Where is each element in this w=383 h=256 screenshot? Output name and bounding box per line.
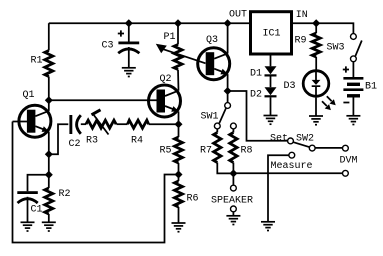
svg-text:D3: D3 xyxy=(284,81,296,92)
wire D2 to ground xyxy=(270,97,272,115)
resistor R4 xyxy=(128,120,149,128)
wire speaker bottom to ground xyxy=(232,212,234,216)
node P1 dot on rail xyxy=(174,19,182,27)
wire feedback loop (Q1 base to R5/R6 node) xyxy=(13,122,179,243)
transistor Q3 xyxy=(198,48,230,80)
svg-text:B1: B1 xyxy=(365,82,377,93)
wire SW2 throw to DVM top xyxy=(315,147,342,149)
svg-text:Q3: Q3 xyxy=(206,35,218,46)
transistor Q1 xyxy=(19,105,51,137)
wire R5 bottom to node E xyxy=(178,163,180,181)
wire R8 bottom to node G xyxy=(232,163,234,174)
svg-text:SW1: SW1 xyxy=(201,112,219,123)
wire C1 branch xyxy=(28,175,49,192)
svg-text:SW3: SW3 xyxy=(327,43,345,54)
wire C2 branch xyxy=(49,124,69,154)
ground under Measure wire xyxy=(261,222,275,231)
svg-text:DVM: DVM xyxy=(340,156,358,167)
wire R2 to ground xyxy=(48,214,50,222)
wire IN rail xyxy=(292,23,354,33)
wire SW3 to battery xyxy=(352,62,354,77)
svg-text:D1: D1 xyxy=(250,69,262,80)
wire Q1 base xyxy=(13,121,28,123)
wire R1 top lead from rail xyxy=(48,23,50,50)
svg-text:SPEAKER: SPEAKER xyxy=(211,196,253,207)
wire R1 bottom to node A xyxy=(48,77,50,111)
svg-text:P1: P1 xyxy=(164,32,176,43)
wire R9 to LED D3 xyxy=(315,57,317,71)
ground under D3 xyxy=(309,116,323,125)
svg-text:Q1: Q1 xyxy=(23,90,35,101)
wire battery to ground xyxy=(352,98,354,116)
wire D1 to D2 xyxy=(270,77,272,88)
wire R7 bottom to node G xyxy=(217,163,233,174)
capacitor C3 plus sign xyxy=(118,30,124,36)
node F dot (Q3 emitter / set wire / SW1) xyxy=(224,87,232,95)
wire set line to SW2 xyxy=(228,91,288,141)
svg-text:OUT: OUT xyxy=(229,10,247,21)
switch SW2 pole terminal xyxy=(288,138,294,144)
node A dot (R1 / Q1 collector / Q2 base) xyxy=(45,96,53,104)
node IN dot xyxy=(312,19,320,27)
wire top rail xyxy=(49,22,251,24)
battery B1 minus sign xyxy=(343,102,349,104)
svg-text:R6: R6 xyxy=(187,194,199,205)
node C3 dot on rail xyxy=(125,19,133,27)
wire Q2 base from node A xyxy=(49,99,157,101)
wire node D to R5 xyxy=(178,124,180,137)
wire R6 to ground xyxy=(178,207,180,223)
switch SW1 common terminal xyxy=(225,103,231,109)
switch SW3 blade xyxy=(355,41,362,57)
resistor R9 xyxy=(312,33,320,57)
switch SW2 throw terminal xyxy=(309,145,315,151)
svg-text:R8: R8 xyxy=(241,146,253,157)
battery B1 xyxy=(343,77,363,98)
diode D1 xyxy=(265,66,277,76)
node E dot (R5 / R6 / feedback) xyxy=(175,171,183,179)
ground under B1 xyxy=(346,116,360,125)
op IC1 box xyxy=(251,12,292,54)
wire R4 to Q2 emitter node xyxy=(149,123,179,125)
switch SW3 bottom terminal xyxy=(351,56,357,62)
svg-text:R5: R5 xyxy=(160,146,172,157)
node OUT dot on rail xyxy=(224,19,232,27)
wire D3 to ground xyxy=(315,98,317,116)
wire Q1 emitter chain down xyxy=(48,132,50,188)
battery B1 plus sign xyxy=(343,66,349,72)
wire P1 bottom to Q2 collector xyxy=(177,70,180,91)
wire node G to speaker terminal xyxy=(232,173,234,185)
capacitor C2 xyxy=(69,115,86,134)
wire C3 top lead xyxy=(128,23,130,41)
wire DVM bottom to node G xyxy=(233,172,342,174)
svg-text:R3: R3 xyxy=(86,136,98,147)
wire R8 top stub xyxy=(232,129,234,133)
resistor R5 xyxy=(175,137,183,163)
svg-text:C3: C3 xyxy=(102,41,114,52)
svg-text:R4: R4 xyxy=(131,136,143,147)
svg-text:C2: C2 xyxy=(69,139,81,150)
svg-text:Q2: Q2 xyxy=(160,74,172,85)
ground under R6 xyxy=(172,223,186,232)
node G dot (R7 / R8 / speaker / DVM) xyxy=(229,169,237,177)
diode D2 xyxy=(265,87,277,97)
terminal speaker bottom xyxy=(231,206,237,212)
resistor R2 xyxy=(45,188,53,214)
wire R3 to R4 xyxy=(116,123,127,125)
terminal speaker top xyxy=(231,185,237,191)
terminal Measure xyxy=(289,152,295,158)
wire R7 top stub xyxy=(216,129,218,133)
potentiometer P1 xyxy=(156,44,206,70)
capacitor C3 xyxy=(118,42,139,68)
transistor Q2 xyxy=(149,85,181,117)
svg-text:D2: D2 xyxy=(250,90,262,101)
node C dot (emitter / C1 branch) xyxy=(45,171,53,179)
switch SW1 blade xyxy=(219,108,226,123)
wire P1 top lead xyxy=(177,23,179,44)
svg-text:Set: Set xyxy=(270,134,288,145)
resistor R3 (trimmer) xyxy=(86,110,116,135)
wire Q3 emitter down xyxy=(227,74,229,102)
svg-text:R7: R7 xyxy=(200,146,212,157)
terminal DVM top xyxy=(343,145,349,151)
LED D3 xyxy=(303,71,336,110)
resistor R8 xyxy=(230,133,237,163)
wire IC1 bottom to D1 xyxy=(270,54,272,66)
terminal R7 top xyxy=(214,123,220,129)
ground under C1 xyxy=(21,222,35,231)
switch SW3 top terminal xyxy=(351,34,357,40)
svg-text:R1: R1 xyxy=(31,56,43,67)
wire R9 top lead xyxy=(315,23,317,33)
svg-text:SW2: SW2 xyxy=(296,134,314,145)
wire Q2 emitter to node xyxy=(178,111,180,124)
resistor R7 xyxy=(214,133,221,163)
ground under R2 xyxy=(42,222,56,231)
capacitor C1 xyxy=(17,191,38,222)
terminal DVM bottom xyxy=(343,170,349,176)
terminal R8 top xyxy=(231,123,237,129)
svg-text:R2: R2 xyxy=(59,189,71,200)
svg-text:R9: R9 xyxy=(295,36,307,47)
svg-text:Measure: Measure xyxy=(271,161,313,172)
wire Q3 collector xyxy=(227,23,229,53)
ground under D2 xyxy=(264,116,278,125)
switch SW2 blade xyxy=(293,142,309,147)
svg-text:IC1: IC1 xyxy=(263,29,281,40)
resistor R1 xyxy=(45,51,53,77)
svg-text:C1: C1 xyxy=(31,205,43,216)
node B dot (emitter / C2 branch) xyxy=(45,150,53,158)
wire Measure to ground xyxy=(268,155,289,222)
ground under C3 xyxy=(122,68,136,77)
node D dot (Q2 emitter / R4 / R5) xyxy=(175,120,183,128)
resistor R6 xyxy=(175,181,183,207)
ground under speaker xyxy=(226,216,240,225)
svg-text:IN: IN xyxy=(296,10,308,21)
